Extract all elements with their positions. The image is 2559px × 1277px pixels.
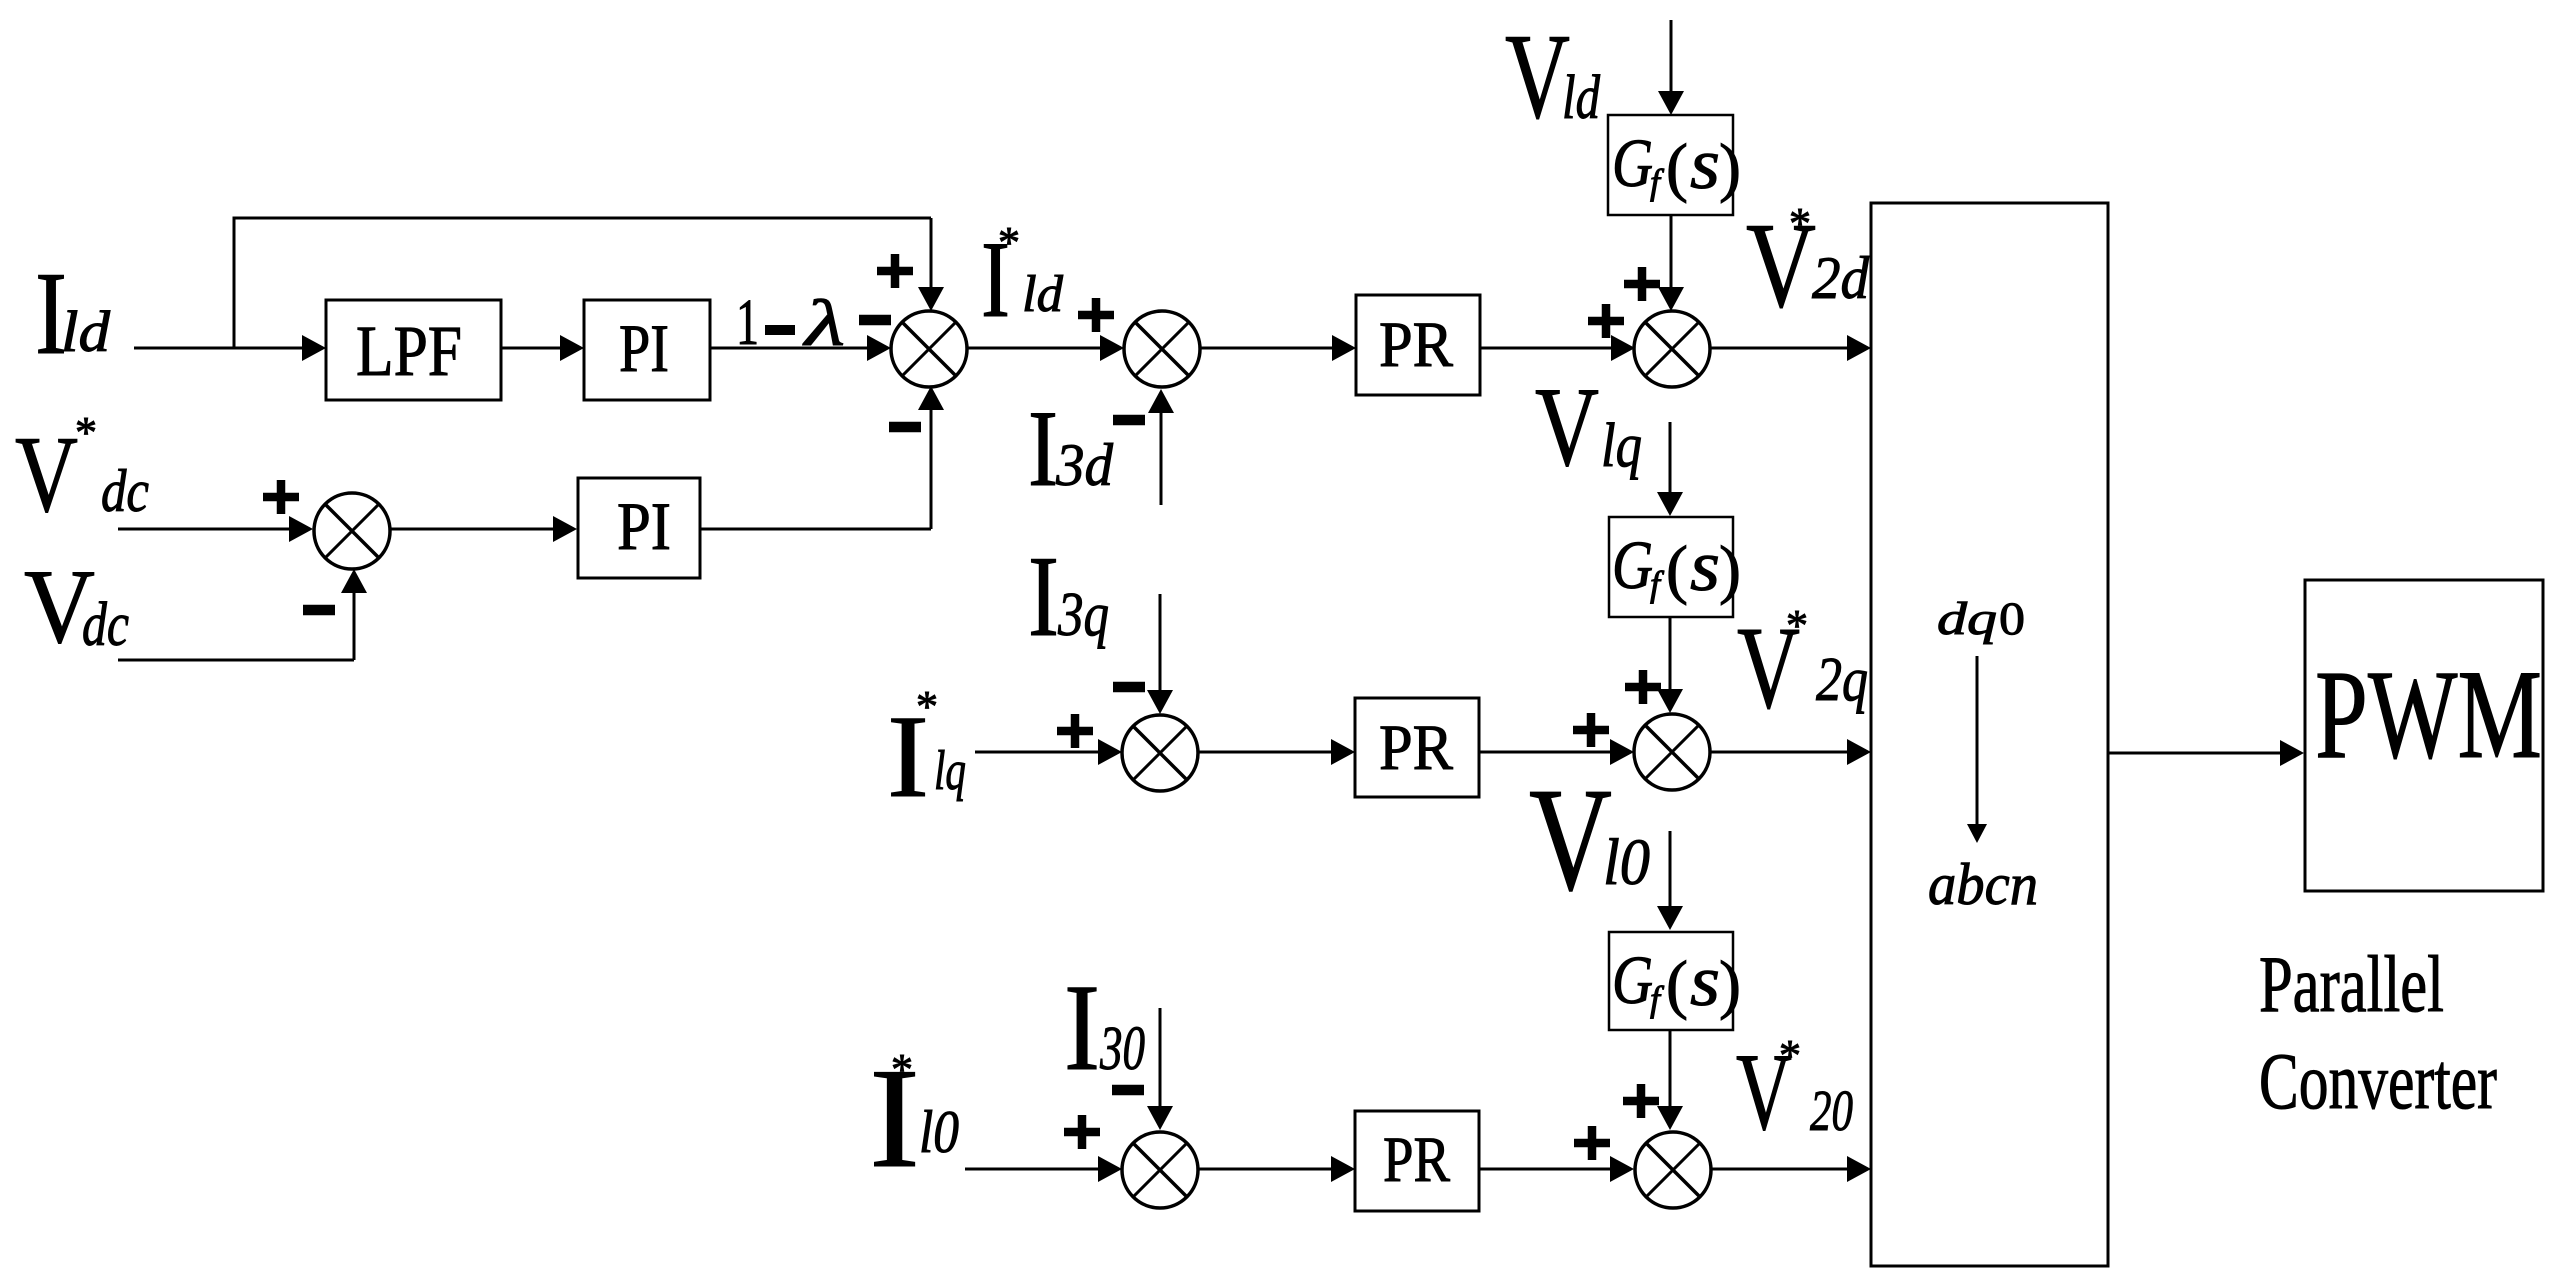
svg-text:V: V [1535, 365, 1599, 490]
svg-text:s: s [1690, 526, 1720, 606]
svg-text:*: * [891, 1045, 913, 1094]
svg-text:V: V [1505, 9, 1570, 144]
svg-text:G: G [1612, 125, 1653, 201]
svg-text:PR: PR [1383, 1124, 1451, 1196]
svg-text:): ) [1719, 533, 1741, 606]
svg-text:I: I [1028, 388, 1058, 509]
svg-text:Parallel: Parallel [2259, 941, 2444, 1029]
svg-text:*: * [1789, 199, 1811, 248]
svg-text:l0: l0 [919, 1099, 959, 1165]
svg-text:): ) [1719, 131, 1741, 204]
svg-text:l0: l0 [1603, 826, 1650, 899]
svg-text:*: * [75, 408, 97, 457]
svg-text:dc: dc [82, 591, 129, 659]
svg-text:PWM: PWM [2315, 645, 2542, 785]
svg-text:I: I [1064, 959, 1100, 1096]
svg-text:dq: dq [1937, 593, 1997, 645]
svg-text:ld: ld [61, 299, 111, 364]
svg-text:I: I [1028, 533, 1059, 660]
svg-text:(: ( [1666, 948, 1688, 1021]
svg-text:*: * [1779, 1031, 1801, 1080]
svg-text:(: ( [1666, 131, 1688, 204]
svg-text:LPF: LPF [356, 311, 462, 391]
svg-text:G: G [1612, 527, 1653, 603]
svg-text:ld: ld [1022, 266, 1064, 323]
svg-text:ld: ld [1562, 64, 1601, 132]
svg-text:30: 30 [1099, 1015, 1145, 1083]
svg-text:(: ( [1666, 533, 1688, 606]
svg-text:1: 1 [736, 286, 759, 359]
svg-text:PR: PR [1379, 712, 1454, 784]
svg-text:s: s [1690, 124, 1720, 204]
svg-text:V: V [1529, 758, 1612, 922]
svg-text:s: s [1690, 941, 1720, 1021]
svg-text:3d: 3d [1055, 432, 1114, 498]
svg-text:*: * [998, 218, 1020, 267]
svg-text:PI: PI [619, 310, 669, 386]
svg-text:lq: lq [934, 740, 966, 802]
svg-text:λ: λ [802, 287, 845, 360]
svg-text:V: V [15, 414, 78, 535]
svg-text:abcn: abcn [1928, 851, 2038, 917]
svg-text:20: 20 [1810, 1078, 1853, 1143]
svg-text:G: G [1612, 942, 1653, 1018]
svg-text:PR: PR [1379, 309, 1454, 381]
svg-text:2q: 2q [1816, 646, 1868, 714]
svg-text:0: 0 [1999, 593, 2025, 645]
svg-text:*: * [1786, 601, 1808, 650]
svg-text:dc: dc [101, 458, 149, 524]
svg-text:): ) [1719, 948, 1741, 1021]
svg-text:lq: lq [1601, 412, 1642, 480]
svg-text:*: * [916, 682, 938, 731]
svg-text:Converter: Converter [2259, 1038, 2497, 1126]
svg-text:3q: 3q [1057, 581, 1109, 649]
svg-text:2d: 2d [1812, 245, 1870, 311]
svg-text:PI: PI [617, 488, 671, 564]
